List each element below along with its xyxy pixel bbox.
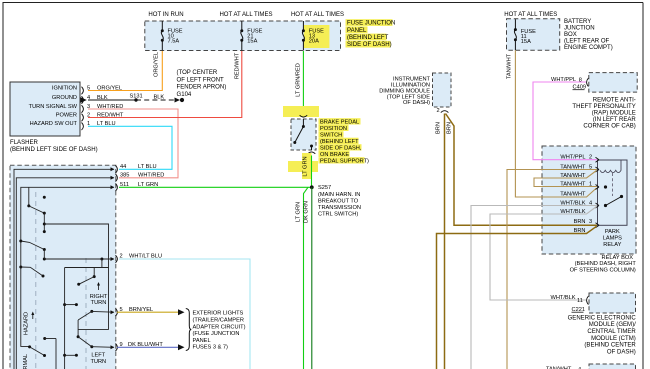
svg-text:FUSES 3 & 7): FUSES 3 & 7): [193, 345, 229, 351]
svg-text:BREAKOUT TO: BREAKOUT TO: [318, 198, 359, 204]
svg-text:(BEHIND LEFT SIDE OF DASH): (BEHIND LEFT SIDE OF DASH): [10, 147, 98, 153]
flasher box: [10, 82, 80, 136]
switch inner wire loop pin44: [14, 169, 114, 369]
switch dashed pivot line right: [85, 258, 87, 369]
svg-text:HOT AT ALL TIMES: HOT AT ALL TIMES: [219, 12, 272, 18]
switch low feed: [43, 337, 56, 369]
label BATTERY JUNCTION BOX: [564, 19, 613, 51]
wire ORG/YEL flasher pin5 to fuse 10: [88, 51, 162, 91]
brake switch top pin bracket: [300, 115, 308, 117]
svg-text:BATTERY: BATTERY: [564, 19, 591, 25]
svg-text:15A: 15A: [247, 39, 257, 45]
relay coil: [600, 161, 621, 173]
svg-text:(BEHIND CENTER: (BEHIND CENTER: [584, 343, 636, 349]
svg-text:PANEL: PANEL: [193, 338, 211, 344]
svg-text:NORMAL: NORMAL: [23, 354, 29, 369]
svg-text:11: 11: [577, 298, 583, 304]
fuse F21: [240, 21, 262, 51]
brace to exterior lights: [186, 309, 192, 351]
svg-text:BRN: BRN: [447, 122, 453, 134]
svg-text:WHT/BLK: WHT/BLK: [551, 295, 576, 301]
svg-text:OF DASH): OF DASH): [607, 349, 636, 355]
brake switch contact: [293, 119, 313, 150]
svg-text:MODULE (CTM): MODULE (CTM): [591, 336, 636, 342]
svg-text:GROUND: GROUND: [52, 95, 77, 101]
label EXTERIOR LIGHTS: [193, 311, 246, 351]
label REMOTE ANTI-THEFT (RAP) MODULE: [572, 98, 636, 130]
switch right-turn contact: [77, 268, 96, 286]
relay contact pin4 + arm: [604, 204, 607, 207]
switch pin 9: [111, 342, 164, 351]
svg-text:RIGHT: RIGHT: [90, 294, 108, 300]
wire BLK (dashed) S131 to G104: [136, 99, 175, 101]
svg-text:20A: 20A: [309, 39, 319, 45]
svg-text:ON BRAKE: ON BRAKE: [320, 152, 349, 158]
svg-text:RELAY BOX: RELAY BOX: [602, 255, 634, 261]
switch contact dot (floating): [43, 196, 46, 199]
wire RED/WHT fuse21 to flasher pin2: [88, 51, 242, 118]
wire LT GRN/RED fuse13 to brake switch: [302, 51, 304, 114]
switch inner rect top: [44, 224, 108, 330]
svg-text:REMOTE ANTI-: REMOTE ANTI-: [593, 98, 636, 104]
svg-text:THEFT PERSONALITY: THEFT PERSONALITY: [572, 104, 635, 110]
wire TAN/WHT jumper pin5-pin1: [534, 171, 597, 187]
fuse junction panel box: [145, 21, 341, 51]
connector C221 bracket: [587, 296, 589, 305]
svg-text:ORG/YEL: ORG/YEL: [154, 52, 160, 77]
svg-text:LT GRN: LT GRN: [295, 202, 301, 222]
svg-text:FUSE JUNCTION: FUSE JUNCTION: [347, 21, 395, 27]
svg-text:TURN: TURN: [91, 300, 107, 306]
switch pin 511: [111, 182, 159, 191]
svg-text:OF STEERING COLUMN): OF STEERING COLUMN): [570, 268, 636, 274]
svg-text:(MAIN HARN. IN: (MAIN HARN. IN: [318, 192, 360, 198]
svg-text:POWER: POWER: [56, 112, 77, 118]
svg-text:G104: G104: [177, 92, 192, 98]
switch inner wire loop pin511: [21, 187, 114, 346]
svg-text:(FUSE JUNCTION: (FUSE JUNCTION: [193, 331, 240, 337]
wire LT GRN switch pin511 to S257: [119, 186, 312, 188]
label INSTRUMENT ILLUMINATION DIMMING MODULE: [379, 77, 430, 107]
wire WHT/RED flasher pin3 to switch pin385: [88, 109, 178, 178]
label RIGHT TURN + arrow: [97, 282, 100, 286]
highlight above brake switch: [283, 106, 319, 117]
svg-text:DK GRN: DK GRN: [304, 201, 310, 223]
svg-text:HOT AT ALL TIMES: HOT AT ALL TIMES: [291, 12, 344, 18]
svg-text:GENERIC ELECTRONIC: GENERIC ELECTRONIC: [568, 315, 637, 321]
svg-text:BLK: BLK: [154, 95, 165, 101]
svg-text:(BEHIND DASH, RIGHT: (BEHIND DASH, RIGHT: [575, 261, 637, 267]
wire BRN relay pin3 down to bottom: [437, 226, 597, 369]
svg-text:SIDE OF DASH,: SIDE OF DASH,: [320, 145, 362, 151]
svg-text:CENTRAL TIMER: CENTRAL TIMER: [587, 329, 636, 335]
wire BRN/YEL pin5 to exterior lights: [117, 311, 179, 313]
svg-text:BOX: BOX: [564, 32, 577, 38]
svg-text:3: 3: [589, 219, 592, 225]
svg-text:LAMPS: LAMPS: [603, 236, 622, 242]
svg-text:BRN: BRN: [436, 122, 442, 134]
svg-text:S257: S257: [318, 185, 331, 191]
page border left: [2, 3, 4, 369]
switch pin5 contact arm: [77, 310, 114, 348]
svg-text:TRANSMISSION: TRANSMISSION: [318, 205, 361, 211]
svg-text:(RAP) MODULE: (RAP) MODULE: [592, 111, 636, 117]
wire BLK flasher pin4 to S131: [88, 99, 136, 101]
svg-text:(LEFT REAR OF: (LEFT REAR OF: [564, 39, 610, 45]
label S257: [318, 185, 361, 217]
switch pin 5: [111, 307, 154, 316]
wire TAN/WHT relay pin5 feed down to bottom: [507, 170, 597, 369]
wire BRN dimming module to relay pin3: [446, 114, 598, 226]
svg-text:TAN/WHT: TAN/WHT: [507, 53, 513, 79]
switch horizontal 267.5: [65, 267, 109, 269]
svg-text:HAZARD SW OUT: HAZARD SW OUT: [30, 121, 78, 127]
svg-text:(TOP CENTER: (TOP CENTER: [177, 70, 218, 76]
svg-text:JUNCTION: JUNCTION: [564, 25, 595, 31]
svg-text:ADAPTER CIRCUIT): ADAPTER CIRCUIT): [193, 324, 246, 330]
svg-text:BRAKE PEDAL: BRAKE PEDAL: [320, 119, 359, 125]
fuse F13 (highlighted): [302, 21, 330, 51]
switch pin2 row inner wire: [44, 258, 114, 260]
relay wire labels: [560, 154, 586, 233]
switch pin 385: [111, 173, 165, 182]
svg-text:2: 2: [589, 154, 592, 160]
flasher pin numbers: [87, 86, 90, 128]
switch dashed pivot line left: [35, 192, 37, 369]
svg-text:WHT/RED: WHT/RED: [138, 173, 164, 179]
svg-text:TAN/WHT: TAN/WHT: [560, 192, 586, 198]
relay pin numbers: [589, 154, 592, 225]
svg-text:IGNITION: IGNITION: [52, 86, 77, 92]
flasher ground pin arrow: [81, 97, 87, 102]
switch column B: [64, 268, 66, 369]
svg-text:RED/WHT: RED/WHT: [235, 52, 241, 79]
svg-text:HAZARD: HAZARD: [23, 312, 29, 335]
svg-text:SIDE OF DASH): SIDE OF DASH): [347, 42, 392, 48]
relay contact pin1: [604, 185, 607, 188]
connector C409 bracket: [587, 78, 589, 87]
wire LT BLU flasher pin1 to switch pin44: [88, 126, 172, 169]
svg-text:385: 385: [120, 173, 129, 179]
svg-text:POSITION: POSITION: [320, 126, 347, 132]
fuse F11: [514, 19, 536, 50]
label PARK LAMPS RELAY: [603, 229, 622, 248]
label GENERIC ELECTRONIC MODULE: [568, 315, 637, 355]
node S131: [134, 98, 137, 101]
bottom module box (cut off): [589, 364, 636, 369]
svg-text:CTRL SWITCH): CTRL SWITCH): [318, 211, 358, 217]
relay box (dashed): [542, 146, 636, 254]
svg-text:7.5A: 7.5A: [168, 39, 180, 45]
label RELAY BOX: [570, 255, 637, 274]
wire WHT/LT BLU pin2 down right side: [119, 259, 250, 369]
svg-text:LT GRN: LT GRN: [303, 156, 309, 176]
brake pedal position switch box: [291, 119, 316, 150]
svg-text:LT BLU: LT BLU: [138, 164, 157, 170]
svg-text:FLASHER: FLASHER: [10, 140, 39, 146]
wire DK GRN S257 down: [311, 187, 313, 369]
svg-text:HOT IN RUN: HOT IN RUN: [148, 12, 183, 18]
label FUSE JUNCTION PANEL (highlighted): [346, 19, 396, 48]
svg-text:RELAY: RELAY: [603, 242, 621, 248]
svg-text:PANEL: PANEL: [347, 28, 367, 34]
wire WHT/BLK relay pin4 to GEM: [490, 207, 597, 301]
instrument illumination dimming module box: [433, 73, 452, 107]
svg-text:MODULE (GEM)/: MODULE (GEM)/: [589, 322, 636, 328]
switch hazard contact pair 1: [19, 240, 46, 260]
wire DK BLU/WHT pin9 to exterior lights: [117, 346, 179, 348]
wire LT GRN brake switch to S257: [311, 156, 313, 188]
flasher pin brackets: [82, 87, 84, 130]
svg-text:LEFT: LEFT: [91, 353, 105, 359]
label BRAKE PEDAL POSITION SWITCH (highlighted): [319, 118, 370, 164]
svg-text:(TRAILER/CAMPER: (TRAILER/CAMPER: [193, 318, 244, 324]
svg-text:ENGINE COMPT): ENGINE COMPT): [564, 45, 613, 51]
svg-text:EXTERIOR LIGHTS: EXTERIOR LIGHTS: [193, 311, 244, 317]
wire WHT/PPL RAP module to relay pin2: [533, 82, 597, 160]
svg-text:PARK: PARK: [605, 229, 620, 235]
relay armature dashed link: [612, 173, 614, 196]
svg-text:15A: 15A: [521, 39, 531, 45]
switch hazard low contact: [28, 345, 46, 357]
page border top: [3, 2, 644, 4]
wire TAN/WHT fuse11 down to relay pin1: [515, 50, 596, 197]
svg-text:SWITCH: SWITCH: [320, 132, 342, 138]
remote anti-theft (RAP) module box: [589, 73, 637, 93]
svg-text:LT GRN: LT GRN: [138, 182, 158, 188]
brake switch bottom pin bracket: [308, 152, 316, 154]
wire BRN dimming module down to bottom: [444, 114, 446, 369]
svg-text:TURN: TURN: [90, 359, 106, 365]
svg-text:TURN SIGNAL SW: TURN SIGNAL SW: [29, 104, 78, 110]
svg-text:FENDER APRON): FENDER APRON): [177, 85, 227, 91]
svg-text:OF LEFT FRONT: OF LEFT FRONT: [177, 77, 225, 83]
svg-text:PEDAL SUPPORT): PEDAL SUPPORT): [320, 158, 369, 164]
highlight LT GRN label: [288, 161, 318, 172]
switch bridge contacts mid: [63, 303, 78, 306]
svg-text:S131: S131: [130, 94, 143, 100]
flasher pin labels: [29, 86, 78, 128]
node S257: [310, 185, 314, 189]
switch vertical at 101.9: [101, 259, 103, 268]
switch pin 2: [111, 254, 163, 263]
svg-text:BRN: BRN: [574, 219, 586, 225]
battery junction box: [507, 19, 560, 50]
wire WHT/BLK relay pin4 down to bottom: [471, 206, 597, 369]
switch contact: 511 branch: [27, 187, 46, 214]
label G104 / fender apron: [177, 70, 227, 98]
page border right: [642, 3, 644, 369]
switch column A: [43, 213, 46, 233]
fuse F10: [161, 21, 183, 51]
wire LT GRN branch S257 down: [304, 187, 309, 369]
svg-text:(BEHIND LEFT: (BEHIND LEFT: [347, 35, 389, 41]
svg-text:44: 44: [120, 164, 126, 170]
relay pin brackets: [596, 157, 600, 228]
svg-text:(BEHIND LEFT: (BEHIND LEFT: [320, 139, 359, 145]
svg-text:(IN LEFT REAR: (IN LEFT REAR: [593, 117, 637, 123]
svg-text:CORNER OF CAB): CORNER OF CAB): [583, 124, 635, 130]
svg-text:511: 511: [120, 182, 129, 188]
flasher wire name labels: [97, 86, 124, 128]
svg-text:OF DASH): OF DASH): [403, 100, 430, 106]
switch hazard contact pair 2: [19, 266, 44, 278]
GEM/CTM module box: [589, 293, 636, 313]
multifunction switch box: [10, 165, 116, 369]
switch inner wire loop pin385: [16, 178, 114, 369]
svg-text:WHT/PPL: WHT/PPL: [560, 154, 585, 160]
ground G104 symbol: [175, 98, 181, 103]
switch pin 44: [111, 164, 157, 173]
svg-text:HOT AT ALL TIMES: HOT AT ALL TIMES: [504, 12, 557, 18]
switch bridge contacts low: [63, 354, 78, 357]
svg-text:LT GRN/RED: LT GRN/RED: [295, 63, 301, 97]
park lamps relay outline: [598, 160, 628, 225]
svg-text:2: 2: [437, 108, 440, 114]
